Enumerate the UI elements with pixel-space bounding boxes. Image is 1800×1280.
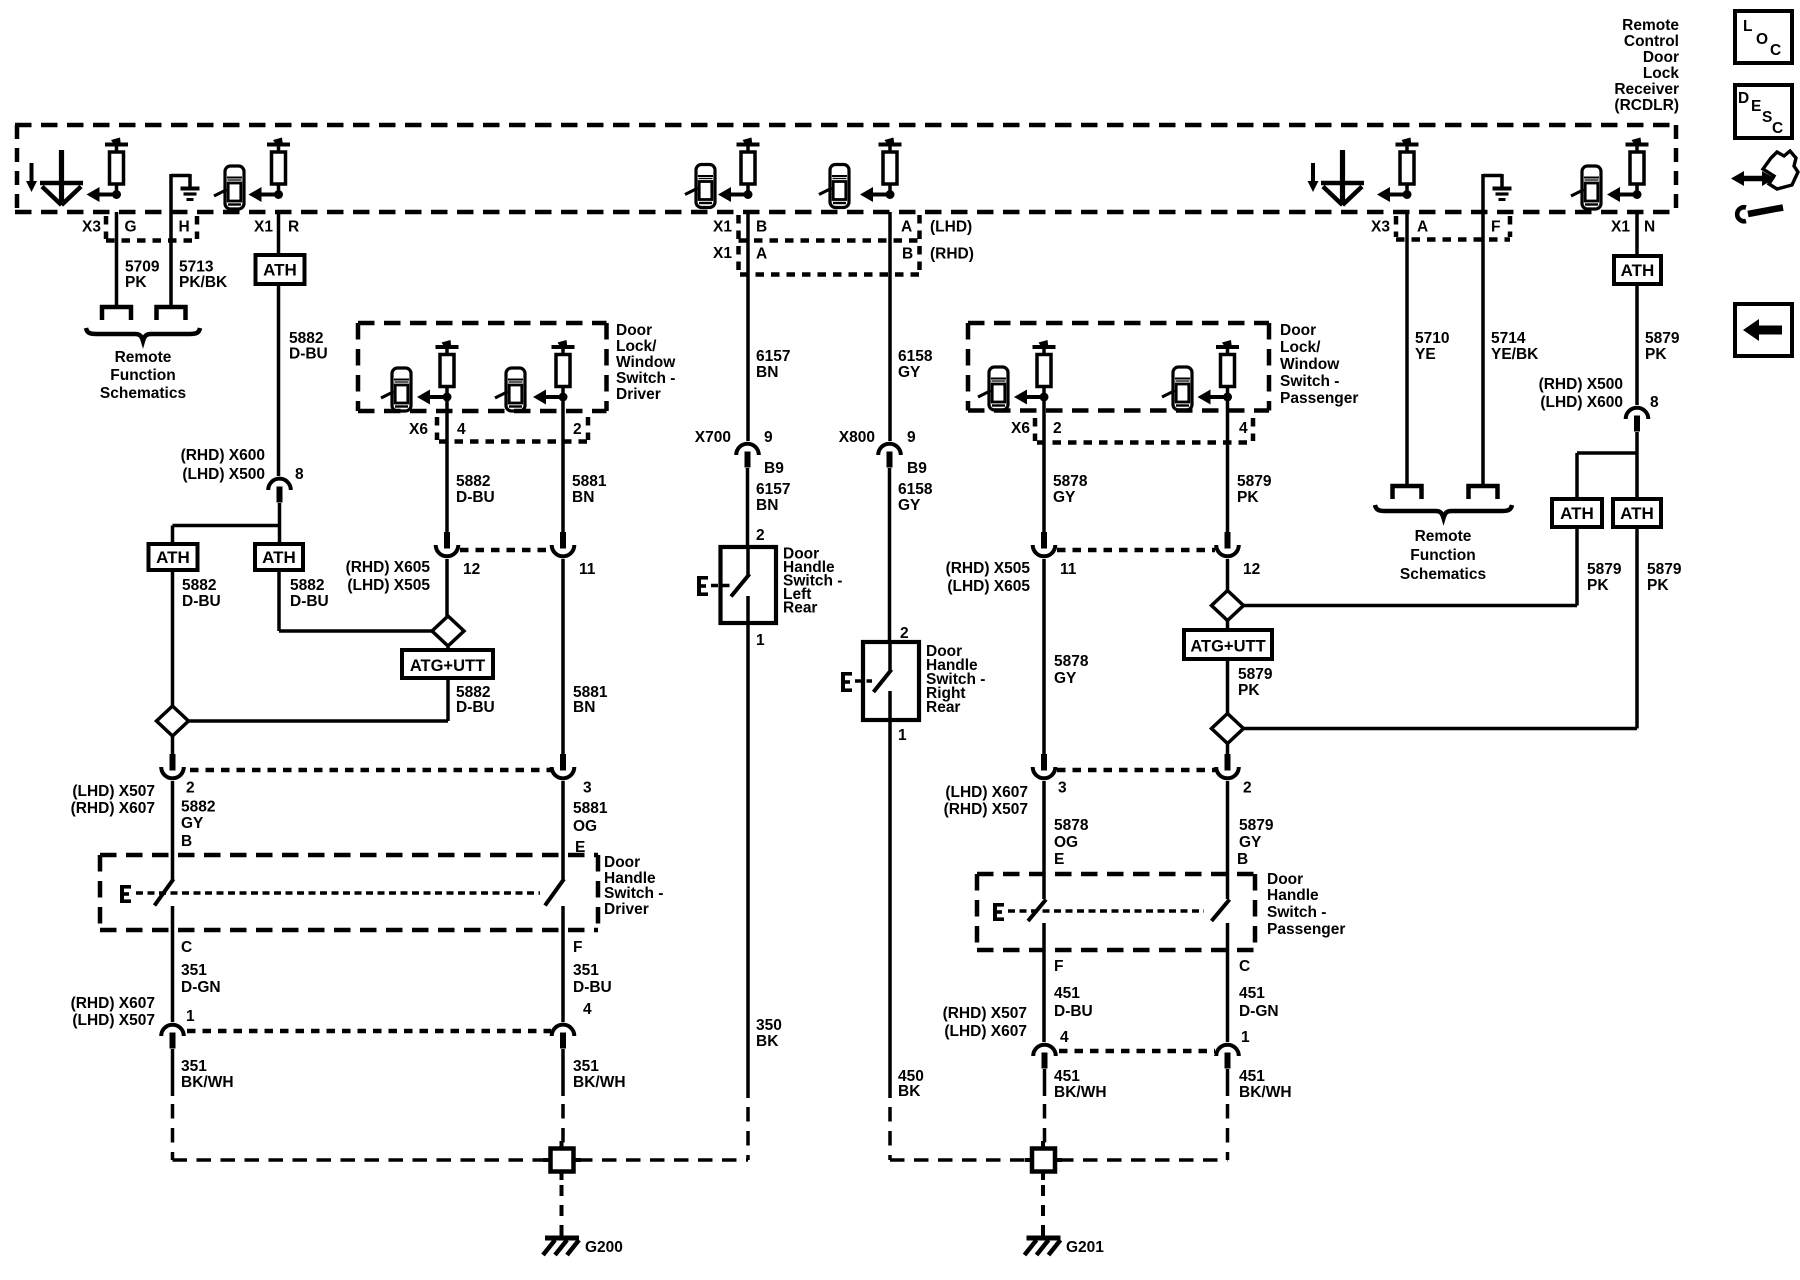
svg-text:1: 1 — [756, 632, 765, 649]
svg-text:B: B — [902, 246, 913, 263]
svg-text:BK/WH: BK/WH — [1054, 1084, 1107, 1101]
svg-text:5879: 5879 — [1587, 561, 1622, 578]
svg-text:O: O — [1756, 31, 1768, 48]
svg-text:2: 2 — [1243, 780, 1252, 797]
wire ATH-right to splice 2 (right) — [1243, 527, 1637, 729]
connector X3 (G,H) dotted box — [106, 216, 197, 241]
connector X1 row RHD labels — [713, 245, 974, 263]
connector X3 (A,F) dotted box — [1396, 216, 1510, 240]
svg-text:Door: Door — [604, 854, 640, 871]
svg-text:D-BU: D-BU — [290, 593, 329, 610]
label pin 2 (left rear) — [756, 527, 765, 544]
wire pin 2 to switch (passenger) — [1226, 781, 1230, 899]
label connector X607/X507 (upper passenger) — [944, 784, 1028, 818]
svg-text:351: 351 — [181, 1058, 207, 1075]
svg-text:ATH: ATH — [156, 548, 190, 567]
svg-text:(LHD) X500: (LHD) X500 — [182, 466, 265, 483]
svg-text:OG: OG — [1054, 834, 1078, 851]
wire X700 to switch — [746, 468, 750, 547]
svg-text:2: 2 — [900, 625, 909, 642]
label connector X505/X605 (driver) — [346, 559, 431, 594]
svg-text:BN: BN — [756, 497, 778, 514]
ATH box (pin N) — [1614, 256, 1661, 284]
icon nav arrows with wrench — [1731, 151, 1798, 221]
E mark (driver switch) — [120, 885, 131, 903]
svg-text:5879: 5879 — [1239, 817, 1274, 834]
connector X3 labels A F — [1371, 219, 1500, 236]
wire pin A down to X800 — [888, 212, 892, 441]
svg-text:PK: PK — [1645, 346, 1667, 363]
svg-text:PK: PK — [1647, 577, 1669, 594]
wire splice 2 to connector 2 (passenger) — [1226, 743, 1230, 754]
svg-text:GY: GY — [898, 364, 921, 381]
connector X607/X507 pin 1 — [161, 1008, 195, 1049]
label 5879 PK (below ATG) — [1238, 666, 1273, 699]
svg-text:ATG+UTT: ATG+UTT — [1190, 638, 1265, 656]
car icon pin A — [819, 165, 849, 208]
wire X6-2 passenger down — [1042, 399, 1046, 532]
RCDLR module dashed box — [15, 125, 1676, 212]
wire 5714 YE/BK — [1481, 177, 1485, 484]
splice diamond (driver, left) — [157, 706, 189, 736]
svg-text:4: 4 — [1239, 420, 1248, 437]
label 5882 D-BU (branch right) — [290, 577, 329, 610]
svg-text:C: C — [1770, 42, 1781, 59]
svg-text:Control: Control — [1624, 33, 1679, 50]
svg-text:12: 12 — [1243, 561, 1260, 578]
label 6158 GY (upper) — [898, 348, 933, 381]
svg-text:Lock/: Lock/ — [1280, 339, 1321, 356]
svg-text:9: 9 — [907, 429, 916, 446]
svg-text:451: 451 — [1054, 985, 1080, 1002]
svg-text:5878: 5878 — [1054, 817, 1089, 834]
label C 351 D-GN — [181, 939, 221, 996]
connector X505/X605 dotted line (passenger) — [1057, 548, 1215, 553]
svg-text:Switch -: Switch - — [1267, 904, 1326, 921]
svg-text:B: B — [756, 219, 767, 236]
svg-text:R: R — [288, 219, 299, 236]
label 5882 GY B — [181, 799, 215, 851]
svg-text:BK/WH: BK/WH — [573, 1074, 626, 1091]
label 351 BK/WH (left) — [181, 1058, 234, 1091]
connector X505/X605 pin 12 (passenger) — [1216, 532, 1260, 578]
svg-text:Remote: Remote — [115, 349, 172, 366]
antenna resistor (DLWS passenger right) — [1198, 340, 1240, 405]
wire pin 2 to switch — [171, 781, 175, 880]
svg-text:D-BU: D-BU — [456, 699, 495, 716]
icon back-arrow box — [1735, 304, 1792, 356]
svg-text:B9: B9 — [907, 460, 927, 477]
junction square G201 — [1025, 1141, 1062, 1180]
svg-text:5881: 5881 — [572, 473, 607, 490]
svg-text:5882: 5882 — [289, 330, 323, 347]
svg-text:X3: X3 — [82, 219, 101, 236]
terminal bracket 5713 — [155, 305, 188, 320]
junction square G200 — [543, 1141, 581, 1180]
svg-text:351: 351 — [573, 1058, 599, 1075]
ATG+UTT box (passenger) — [1184, 630, 1272, 659]
svg-text:1: 1 — [1241, 1029, 1250, 1046]
svg-text:D-GN: D-GN — [1239, 1003, 1279, 1020]
connector X700 pin 9 — [736, 444, 759, 468]
svg-text:PK: PK — [1237, 489, 1259, 506]
wire ATH-right down — [277, 570, 281, 631]
splice diamond (ATG passenger upper) — [1212, 591, 1244, 621]
svg-text:D: D — [1738, 90, 1749, 107]
label G200 — [585, 1239, 623, 1256]
svg-text:Schematics: Schematics — [1400, 566, 1486, 583]
svg-text:Rear: Rear — [783, 600, 817, 617]
wire branch to ATH left — [173, 526, 280, 545]
svg-text:(RHD) X605: (RHD) X605 — [346, 559, 431, 576]
connector X507/X607 pin 1 (passenger) — [1216, 1029, 1250, 1069]
label pin 1 (left rear) — [756, 632, 765, 649]
svg-text:6157: 6157 — [756, 481, 790, 498]
svg-text:2: 2 — [573, 421, 582, 438]
svg-text:Remote: Remote — [1622, 17, 1679, 34]
icon LOC box — [1735, 11, 1792, 63]
connector X6 driver labels — [409, 421, 582, 438]
label C 451 D-GN — [1239, 958, 1279, 1020]
label 451 BK/WH (left) — [1054, 1068, 1107, 1101]
svg-text:ATH: ATH — [1620, 504, 1654, 523]
wire right rear to ground net — [888, 720, 892, 1160]
car icon (DLWS driver left) — [381, 368, 411, 411]
svg-text:D-BU: D-BU — [1054, 1003, 1093, 1020]
label 5882 D-BU (pin R) — [289, 330, 328, 363]
ground net G201 dashed line — [890, 1158, 1228, 1162]
svg-text:GY: GY — [1239, 834, 1262, 851]
label 351 BK/WH (right) — [573, 1058, 626, 1091]
connector X507/X607 pin 4 (passenger) — [1033, 1029, 1069, 1069]
splice diamond (ATG passenger lower) — [1212, 714, 1244, 744]
wire X800 to switch — [888, 468, 892, 642]
label 451 BK/WH (right) — [1239, 1068, 1292, 1101]
svg-text:2: 2 — [756, 527, 765, 544]
svg-text:A: A — [756, 246, 767, 263]
svg-text:Remote: Remote — [1415, 528, 1472, 545]
svg-text:Passenger: Passenger — [1267, 921, 1345, 938]
label connector X607/X507 (lower driver) — [71, 995, 155, 1029]
wire pin 12 to splice — [445, 559, 449, 616]
svg-text:E: E — [1751, 98, 1761, 115]
label 6158 GY (lower) — [898, 481, 933, 514]
svg-text:F: F — [573, 939, 582, 956]
svg-text:F: F — [1054, 958, 1063, 975]
label 5882 D-BU (X6-4) — [456, 473, 495, 506]
svg-text:8: 8 — [295, 466, 304, 483]
antenna resistor (DLWS driver left) — [417, 340, 459, 405]
svg-text:GY: GY — [1053, 489, 1076, 506]
svg-text:X6: X6 — [409, 421, 428, 438]
label F 451 D-BU — [1054, 958, 1093, 1020]
svg-text:Rear: Rear — [926, 699, 960, 716]
label 5881 OG E — [573, 800, 608, 856]
svg-text:5713: 5713 — [179, 259, 214, 276]
label 5878 GY (X6) — [1053, 473, 1088, 506]
antenna resistor (DLWS driver right) — [533, 340, 575, 405]
wire ATH-left down to splice — [171, 570, 175, 706]
wire left rear to ground net — [746, 623, 750, 1160]
svg-text:ATH: ATH — [262, 548, 296, 567]
svg-text:Receiver: Receiver — [1614, 81, 1679, 98]
svg-text:5882: 5882 — [456, 473, 490, 490]
svg-text:D-BU: D-BU — [182, 593, 221, 610]
svg-text:5879: 5879 — [1238, 666, 1273, 683]
svg-text:GY: GY — [181, 815, 204, 832]
antenna resistor pin B — [718, 138, 760, 203]
svg-text:6157: 6157 — [756, 348, 790, 365]
E mark (passenger switch) — [993, 903, 1004, 921]
connector X507/X607 pin 3 — [552, 754, 592, 797]
svg-text:BK: BK — [756, 1033, 779, 1050]
svg-text:1: 1 — [898, 727, 907, 744]
svg-text:C: C — [1239, 958, 1250, 975]
door handle switch passenger dashed box — [977, 874, 1255, 950]
svg-text:PK: PK — [125, 274, 147, 291]
wire 351 BK/WH left — [171, 1049, 175, 1160]
svg-text:(LHD) X605: (LHD) X605 — [947, 578, 1030, 595]
svg-text:F: F — [1491, 219, 1500, 236]
connector X507/X607 pin 2 — [161, 754, 194, 797]
right rear switch contacts — [874, 642, 892, 720]
ATH box (pin R) — [256, 255, 305, 284]
svg-text:Door: Door — [1280, 322, 1316, 339]
wire pin R to ATH — [277, 212, 281, 255]
car icon pin R — [214, 166, 244, 209]
svg-text:N: N — [1644, 219, 1655, 236]
wire X6-2 down — [561, 399, 565, 532]
svg-text:Switch -: Switch - — [616, 370, 675, 387]
svg-text:PK: PK — [1238, 682, 1260, 699]
svg-text:G200: G200 — [585, 1239, 623, 1256]
svg-text:Lock/: Lock/ — [616, 338, 657, 355]
svg-text:Handle: Handle — [1267, 887, 1319, 904]
label remote function schematics (right) — [1400, 528, 1486, 583]
svg-text:5881: 5881 — [573, 800, 608, 817]
svg-text:(LHD) X507: (LHD) X507 — [72, 783, 155, 800]
svg-text:(RHD) X507: (RHD) X507 — [943, 1005, 1027, 1022]
left rear switch contacts — [731, 547, 750, 623]
wire 351 BK/WH right — [561, 1049, 565, 1146]
car icon pin B — [685, 165, 715, 208]
door handle switch driver dashed box — [100, 855, 598, 930]
svg-text:(RHD) X505: (RHD) X505 — [946, 560, 1031, 577]
svg-text:11: 11 — [579, 561, 596, 578]
label connector X500/X600 (right) — [1539, 376, 1659, 411]
wire branch to left ATH (right) — [1577, 453, 1637, 499]
label 5881 BN (X6-2) — [572, 473, 607, 506]
svg-text:Passenger: Passenger — [1280, 390, 1358, 407]
svg-text:D-BU: D-BU — [289, 346, 328, 363]
label F 351 D-BU — [573, 939, 612, 996]
svg-text:5714: 5714 — [1491, 330, 1526, 347]
wire junction to G201 — [1041, 1185, 1045, 1236]
connector X6 passenger labels — [1011, 420, 1248, 437]
car icon (DLWS passenger left) — [978, 367, 1008, 410]
svg-text:Window: Window — [616, 354, 676, 371]
label connector X505/X605 (passenger) — [946, 560, 1031, 595]
label 5882 D-BU (branch left) — [182, 577, 221, 610]
door lock/window switch passenger label — [1280, 322, 1358, 407]
svg-text:X1: X1 — [1611, 219, 1630, 236]
svg-text:BN: BN — [756, 364, 778, 381]
svg-text:Door: Door — [1643, 49, 1679, 66]
svg-text:BK: BK — [898, 1083, 921, 1100]
label 350 BK — [756, 1017, 782, 1050]
ground hook pin F — [1483, 174, 1512, 200]
svg-text:PK: PK — [1587, 577, 1609, 594]
connector X507/X607 dotted line — [190, 768, 551, 773]
connector X3 labels G H — [82, 219, 190, 236]
wire ATG to splice 2 (passenger) — [1226, 659, 1230, 714]
svg-text:E: E — [1054, 851, 1064, 868]
terminal bracket 5714 — [1467, 484, 1500, 499]
svg-text:Function: Function — [110, 367, 175, 384]
label 450 BK — [898, 1068, 924, 1100]
svg-text:(LHD) X507: (LHD) X507 — [72, 1012, 155, 1029]
wire 5713 PK/BK — [169, 177, 173, 305]
svg-text:Door: Door — [616, 322, 652, 339]
label 5879 PK (branch left) — [1587, 561, 1622, 594]
svg-text:YE: YE — [1415, 346, 1436, 363]
label 5878 GY (mid) — [1054, 653, 1089, 687]
connector X1 label R — [254, 219, 299, 236]
connector X500/X600 pin 8 — [268, 479, 291, 503]
svg-text:5709: 5709 — [125, 259, 160, 276]
label 6157 BN (upper) — [756, 348, 790, 381]
label connector X507/X607 (lower passenger) — [943, 1005, 1027, 1040]
svg-text:A: A — [1417, 219, 1428, 236]
label 5710 YE — [1415, 330, 1449, 363]
label 5881 BN (mid) — [573, 684, 608, 716]
label pin 2 (right rear) — [900, 625, 909, 642]
wire pin 11 down — [561, 559, 565, 754]
connector X607/X507 pin 3 (passenger) — [1033, 754, 1067, 797]
svg-text:B: B — [1237, 851, 1248, 868]
svg-text:5879: 5879 — [1237, 473, 1272, 490]
svg-text:A: A — [901, 219, 912, 236]
wire pin 3 to switch — [561, 781, 565, 880]
svg-text:451: 451 — [1239, 985, 1265, 1002]
signal arrow small (left) — [26, 163, 37, 192]
svg-text:ATH: ATH — [1560, 504, 1594, 523]
svg-text:YE/BK: YE/BK — [1491, 346, 1539, 363]
svg-text:350: 350 — [756, 1017, 782, 1034]
svg-text:G201: G201 — [1066, 1239, 1104, 1256]
svg-text:X800: X800 — [839, 429, 875, 446]
svg-text:3: 3 — [1058, 780, 1067, 797]
ATH box (driver branch left) — [149, 544, 198, 570]
svg-text:Lock: Lock — [1643, 65, 1680, 82]
door handle switch passenger label — [1267, 871, 1345, 938]
label G201 — [1066, 1239, 1104, 1256]
svg-text:(LHD) X607: (LHD) X607 — [945, 784, 1028, 801]
car icon pin N — [1571, 166, 1601, 209]
svg-text:X1: X1 — [713, 219, 732, 236]
wire X6-4 down — [445, 399, 449, 532]
svg-text:Function: Function — [1410, 547, 1475, 564]
svg-text:451: 451 — [1054, 1068, 1080, 1085]
door handle switch left rear label — [783, 546, 842, 617]
switch blade (passenger right) — [1212, 900, 1230, 922]
svg-text:BN: BN — [573, 699, 595, 716]
svg-text:ATH: ATH — [1621, 261, 1655, 280]
svg-text:(LHD): (LHD) — [930, 219, 972, 236]
svg-text:11: 11 — [1060, 561, 1077, 578]
connector X607/X507 pin 2 (passenger) — [1216, 754, 1251, 797]
svg-text:(RCDLR): (RCDLR) — [1614, 97, 1679, 114]
car icon (DLWS passenger right) — [1162, 367, 1192, 410]
svg-text:2: 2 — [1053, 420, 1062, 437]
wire splice to connector 2 — [171, 736, 175, 754]
wire ATH to connector X500 (right) — [1635, 284, 1639, 405]
svg-text:(RHD) X600: (RHD) X600 — [181, 447, 265, 464]
wire junction to G200 — [560, 1185, 564, 1236]
wire 5709 PK — [115, 212, 119, 305]
svg-text:5879: 5879 — [1645, 330, 1680, 347]
label 5882 D-BU (below ATG) — [456, 684, 495, 716]
svg-text:(RHD) X500: (RHD) X500 — [1539, 376, 1623, 393]
door lock/window switch driver dashed box — [358, 323, 607, 411]
signal arrow large (right) — [1321, 150, 1364, 205]
svg-text:(RHD) X607: (RHD) X607 — [71, 995, 155, 1012]
wire connector 8 down (right) — [1635, 432, 1639, 499]
svg-text:451: 451 — [1239, 1068, 1265, 1085]
svg-text:(RHD): (RHD) — [930, 246, 974, 263]
connector X607/X507 dotted line (passenger) — [1057, 768, 1215, 773]
connector X607/X507 pin 4 — [552, 1001, 592, 1049]
svg-text:X1: X1 — [713, 245, 732, 262]
svg-text:Switch -: Switch - — [604, 885, 663, 902]
door handle switch left rear box — [721, 547, 777, 623]
door handle switch right rear label — [926, 643, 985, 716]
ATH box (right branch right) — [1613, 499, 1661, 527]
svg-text:8: 8 — [1650, 394, 1659, 411]
wire ATH-left to splice (right) — [1243, 527, 1577, 606]
svg-text:X1: X1 — [254, 219, 273, 236]
door handle switch right rear box — [863, 642, 919, 720]
svg-text:GY: GY — [1054, 670, 1077, 687]
ground G200 — [543, 1238, 579, 1255]
splice diamond (ATG driver) — [432, 616, 464, 646]
svg-text:4: 4 — [583, 1001, 592, 1018]
connector X505/X605 pin 12 — [436, 532, 481, 578]
label 5709 PK — [125, 259, 160, 292]
svg-text:Door: Door — [1267, 871, 1303, 888]
svg-text:G: G — [125, 219, 137, 236]
connector X607/X507 dotted line (lower) — [187, 1029, 551, 1034]
label 5713 PK/BK — [179, 259, 228, 292]
connector X6 passenger dotted box — [1035, 418, 1253, 443]
terminal bracket 5710 — [1391, 484, 1424, 499]
signal arrow small (right) — [1308, 163, 1319, 192]
svg-text:BK/WH: BK/WH — [1239, 1084, 1292, 1101]
wire ATG+UTT to splice line — [189, 678, 449, 721]
svg-text:D-GN: D-GN — [181, 979, 221, 996]
wire connector to branch — [278, 503, 282, 544]
switch blade (passenger left) — [1028, 900, 1046, 922]
ground net G200 dashed line — [173, 1158, 749, 1162]
label 5879 PK (X6) — [1237, 473, 1272, 506]
label pin 1 (right rear) — [898, 727, 907, 744]
label 6157 BN (lower) — [756, 481, 790, 514]
wire ATH to connector X500 — [277, 284, 281, 476]
svg-text:Driver: Driver — [604, 901, 649, 918]
wire pin 11 passenger down — [1042, 559, 1046, 754]
wire 5710 YE — [1405, 212, 1409, 484]
wire 451 BK/WH left — [1043, 1069, 1047, 1146]
